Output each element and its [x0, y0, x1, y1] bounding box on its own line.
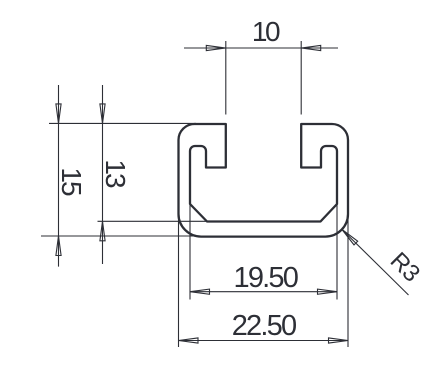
extension line slot-left (10 dim): [225, 41, 227, 115]
dimension line 13: [102, 85, 104, 264]
arrow 22.50 right: [329, 338, 349, 343]
svg-text:10: 10: [252, 16, 280, 47]
extension line outer-left (22.50 dim): [178, 215, 180, 347]
extension line outer-right (22.50 dim): [347, 215, 349, 347]
dimension line 15: [58, 85, 60, 267]
arrow 15 bottom: [56, 236, 61, 256]
arrow 19.50 right: [318, 289, 338, 294]
svg-text:22.50: 22.50: [232, 310, 296, 342]
leader line R3: [342, 230, 409, 296]
dimension line 19.50: [190, 291, 337, 293]
svg-text:13: 13: [100, 159, 131, 188]
arrow 15 top: [56, 104, 61, 124]
svg-text:15: 15: [56, 167, 87, 196]
extension line slot-right (10 dim): [300, 41, 302, 115]
svg-text:19.50: 19.50: [234, 262, 298, 294]
dimension line 10: [184, 47, 338, 49]
svg-text:R3: R3: [385, 247, 425, 287]
dimension line 22.50: [179, 340, 349, 342]
extension line inner-bottom (13 dim): [98, 220, 208, 222]
extension line outer-bottom (15 dim): [41, 235, 201, 237]
arrow 13 top: [100, 104, 105, 124]
profile outline (C-channel cross-section): [179, 124, 349, 237]
extension line inner-right (19.50 dim): [336, 205, 338, 300]
arrow 10 right: [301, 45, 321, 50]
arrow 13 bottom: [100, 221, 105, 241]
extension line top (13/15 dims): [49, 122, 196, 124]
extension line inner-left (19.50 dim): [189, 205, 191, 300]
arrow 19.50 left: [190, 289, 210, 294]
arrow R3 leader: [342, 230, 358, 245]
arrow 10 left: [206, 45, 226, 50]
arrow 22.50 left: [179, 338, 199, 343]
